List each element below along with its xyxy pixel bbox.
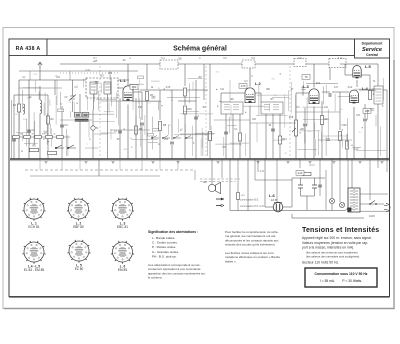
wire [320, 132, 322, 142]
svg-text:P : Petites ondes.: P : Petites ondes. [152, 245, 176, 249]
legend: signification des abreviations [148, 230, 205, 280]
wire [273, 139, 284, 141]
resistor R12 [238, 133, 241, 141]
capacitor C10 [194, 117, 198, 119]
ground [44, 162, 47, 164]
svg-text:EZ 80: EZ 80 [75, 267, 84, 271]
svg-text:185: 185 [365, 109, 370, 113]
wire [67, 135, 69, 156]
wire [377, 64, 379, 86]
wire [386, 90, 388, 159]
svg-text:CV: CV [64, 97, 68, 99]
junction node [161, 105, 162, 106]
wire [107, 94, 109, 120]
wire [339, 141, 341, 160]
wire [304, 124, 306, 143]
wire [141, 126, 143, 159]
svg-text:EBF 80: EBF 80 [73, 225, 84, 229]
electrolytic capacitor C21 [312, 178, 317, 196]
resistor [138, 76, 144, 79]
wire [210, 126, 212, 141]
capacitor C22 [318, 185, 322, 187]
mains plug P1 [384, 204, 390, 212]
wire [356, 80, 358, 87]
wire [138, 98, 140, 118]
tube socket diagram L. 6 (underside view) [111, 241, 134, 264]
wire drop to dial line [98, 159, 100, 176]
wire [362, 74, 371, 76]
wire [100, 83, 102, 94]
tube socket diagram L. 2 (underside view) [67, 198, 90, 221]
wire [109, 76, 111, 94]
wire plate to OPT [359, 89, 374, 91]
junction node [220, 101, 221, 102]
paper sheet [3, 28, 394, 309]
svg-text:Consommation sous 110 V 50 H: Consommation sous 110 V 50 Hz [315, 272, 368, 276]
wire [327, 109, 329, 140]
antenna A1 [38, 62, 42, 68]
wire [239, 114, 241, 159]
resistor R11 [208, 132, 211, 141]
wire [302, 106, 323, 108]
wire [322, 91, 330, 93]
wire mains rail [360, 193, 388, 195]
wire [94, 133, 108, 135]
wire [325, 137, 327, 156]
wire [39, 114, 41, 159]
wire [140, 117, 142, 146]
mains transformer T [347, 188, 360, 212]
svg-text:ECH 81: ECH 81 [28, 225, 39, 229]
wire [303, 81, 305, 95]
wire [135, 98, 137, 159]
wire [146, 64, 148, 90]
wire [183, 110, 199, 112]
wire [377, 104, 379, 159]
resistor chain element [57, 135, 64, 138]
junction node [180, 130, 181, 131]
tube L.2 envelope [245, 88, 255, 103]
wire cathode L3 [313, 107, 315, 160]
wire [146, 101, 148, 160]
wire [47, 95, 49, 116]
capacitor [44, 131, 48, 133]
wire [44, 93, 46, 116]
wire [342, 137, 344, 147]
wire [255, 92, 261, 94]
capacitor C9 [170, 142, 174, 144]
voltage value box 185 [363, 109, 371, 114]
wire [72, 101, 74, 113]
tube socket diagram L.4 - L.5 (underside view) [22, 241, 45, 264]
wire [85, 147, 99, 149]
wire [119, 98, 121, 159]
wire [116, 93, 118, 118]
wire [18, 80, 20, 159]
wire [306, 196, 308, 210]
chassis bus lower edge [10, 160, 389, 162]
wire AVC line [195, 80, 197, 159]
resistor R4 [48, 151, 57, 154]
wire [257, 94, 288, 96]
wire [29, 71, 31, 80]
wire [244, 105, 265, 107]
svg-text:endroits des circuits qu'il: endroits des circuits qu'ils intéressent… [225, 243, 276, 247]
svg-text:Schéma général: Schéma général [173, 46, 227, 53]
dashed switch row [200, 178, 240, 180]
resistor R10 [183, 106, 186, 114]
IF1 secondary coil [104, 82, 111, 94]
chassis ground bus [10, 158, 389, 160]
resistor chain element [35, 135, 42, 138]
wire [347, 159, 349, 211]
wire [79, 94, 81, 112]
tube L.3 envelope [309, 89, 319, 104]
wire [356, 150, 386, 152]
capacitor [302, 88, 306, 90]
wire [244, 134, 246, 156]
wire [21, 133, 23, 141]
wire antenna lead [39, 68, 41, 80]
svg-text:Appareil réglé sur 200 m. envi: Appareil réglé sur 200 m. environ, sans … [302, 236, 372, 240]
tube socket diagram L. 3 (underside view) [111, 198, 134, 221]
ground [176, 162, 179, 164]
wire [184, 64, 186, 86]
junction node [245, 112, 246, 113]
svg-text:L.2: L.2 [255, 81, 262, 86]
coil S2 [40, 100, 42, 114]
wire [214, 119, 250, 121]
svg-text:110V: 110V [369, 214, 375, 218]
section: Tensions et Intensites [302, 227, 379, 265]
wire [88, 120, 90, 138]
wire [319, 159, 321, 196]
wire top rail left [19, 79, 129, 81]
IF transformer S7 can (right of L2) [261, 102, 283, 114]
ground [332, 162, 335, 164]
dashed switch row [200, 181, 236, 183]
wire [309, 98, 318, 100]
ground [256, 162, 259, 164]
wire [66, 129, 68, 156]
wire [132, 86, 134, 110]
resistor [58, 109, 64, 112]
wire [288, 91, 290, 112]
svg-text:G: G [21, 151, 23, 153]
wire [96, 99, 116, 101]
wire [49, 124, 51, 134]
wire [56, 80, 58, 105]
wire [229, 117, 231, 133]
wire [301, 195, 315, 197]
dial lamp E1 [329, 198, 334, 203]
wire [352, 146, 361, 148]
svg-text:Valeurs moyennes (tension en v: Valeurs moyennes (tension en volts par r… [302, 241, 368, 245]
wire [295, 95, 297, 119]
IF transformer S3 (dashed can) [86, 78, 118, 98]
svg-text:commutation P.O.-G.O.: commutation P.O.-G.O. [240, 205, 265, 208]
wire [382, 78, 384, 101]
svg-text:0,02: 0,02 [348, 87, 353, 89]
wire [386, 159, 388, 172]
wire [33, 112, 35, 145]
dial lamp E2 [339, 202, 344, 207]
wire [265, 206, 273, 208]
wire [264, 159, 266, 207]
wire [292, 217, 364, 219]
svg-text:Central: Central [366, 53, 378, 57]
junction node [342, 129, 343, 130]
wire [201, 128, 203, 148]
wire [167, 125, 169, 135]
wire [295, 136, 297, 159]
wire [18, 112, 20, 130]
junction node [341, 134, 342, 135]
wire [221, 92, 243, 94]
wire plate L3 [313, 64, 315, 88]
loudspeaker HP [208, 182, 220, 193]
wire [184, 96, 186, 105]
dial cord dashed line [25, 169, 195, 171]
output transformer S10 [374, 86, 383, 104]
wire [301, 86, 303, 96]
wire [375, 115, 377, 127]
capacitor C3 [60, 125, 64, 127]
wire [184, 124, 186, 132]
wire [51, 128, 53, 146]
wire section divider dashed [205, 66, 207, 156]
wire [141, 92, 143, 120]
capacitor C7 [118, 131, 122, 133]
wire [347, 118, 349, 147]
voltage value box 170 [239, 84, 247, 89]
legend arrow solid [216, 198, 224, 201]
wire [304, 108, 306, 123]
capacitor C1 [27, 130, 31, 132]
wire drop to dial line [39, 159, 41, 170]
wire [303, 118, 327, 120]
wire [28, 80, 30, 125]
ground [84, 162, 87, 164]
junction node [299, 132, 300, 133]
volume potentiometer R15 [292, 120, 298, 136]
wire [69, 111, 71, 118]
junction node [382, 105, 383, 106]
resistor chain element [13, 135, 20, 138]
ground [216, 162, 219, 164]
ground [380, 162, 383, 164]
wire [159, 131, 161, 160]
wire [291, 214, 293, 218]
wire [110, 129, 150, 131]
resistor [147, 133, 153, 136]
legend right column [225, 230, 280, 263]
wire [345, 74, 353, 76]
wire [19, 87, 62, 89]
wire [107, 120, 109, 159]
wire [151, 80, 160, 82]
wire [167, 97, 200, 99]
drawing frame [9, 39, 390, 297]
wire to speaker [211, 159, 213, 184]
wire [61, 106, 63, 159]
wire [344, 64, 346, 75]
wire [34, 80, 36, 92]
wire [321, 101, 323, 116]
wire [188, 83, 190, 103]
svg-text:L.1: L.1 [120, 78, 127, 83]
wire [250, 122, 296, 124]
wire drop to dial line [119, 159, 121, 170]
wire [47, 124, 49, 159]
wire [290, 82, 292, 113]
wire [69, 71, 71, 80]
junction node [60, 103, 61, 104]
wire [171, 145, 173, 159]
capacitor C2 [12, 139, 16, 141]
junction node [48, 141, 49, 142]
wire [272, 96, 289, 98]
wire [194, 170, 196, 180]
svg-text:S 11: S 11 [260, 171, 265, 173]
wire [131, 139, 157, 141]
wire [23, 87, 40, 89]
wire [379, 127, 381, 157]
trimmer T1 [91, 126, 95, 130]
title block: Departement Service Central [355, 39, 390, 58]
capacitor C13 [271, 129, 275, 131]
wire [174, 134, 208, 136]
wire [254, 159, 256, 180]
wire [72, 90, 74, 96]
svg-text:R10: R10 [187, 108, 192, 111]
wire [299, 130, 320, 132]
wire [195, 132, 215, 134]
wire [133, 91, 142, 93]
wire [14, 94, 48, 96]
wire [46, 113, 48, 145]
voltage value box 100 [130, 85, 138, 90]
wire [279, 114, 281, 159]
svg-text:210: 210 [298, 171, 303, 175]
wire [304, 133, 306, 143]
wire [203, 64, 205, 100]
wire section divider dashed [289, 66, 291, 156]
wire [383, 89, 387, 91]
tuning gang dashed link [60, 72, 120, 74]
wire [43, 103, 45, 116]
consommation box [305, 268, 377, 287]
capacitor [151, 96, 155, 98]
voltage value box 210 [296, 171, 304, 176]
IF1 primary coil [90, 82, 97, 94]
junction node [77, 103, 78, 104]
wire [100, 100, 160, 102]
switch block S9 (dashed) [329, 59, 346, 68]
wire [334, 94, 336, 112]
wire [13, 95, 15, 159]
svg-text:0,5M: 0,5M [341, 125, 346, 127]
wire [92, 110, 94, 126]
voltage value box 75 [302, 75, 310, 80]
svg-text:C11: C11 [220, 89, 225, 91]
svg-text:100: 100 [132, 85, 137, 89]
wire [331, 204, 333, 211]
wire [83, 79, 85, 88]
wire [257, 159, 259, 172]
wire [339, 92, 341, 130]
paper bottom shadow [4, 60, 394, 309]
junction node [216, 89, 217, 90]
svg-text:0,05: 0,05 [166, 87, 171, 89]
wire [22, 90, 24, 110]
wire [55, 96, 57, 125]
svg-text:étalée ».: étalée ». [225, 259, 237, 263]
svg-text:1M: 1M [202, 107, 205, 109]
wire [338, 96, 353, 98]
wire [291, 178, 293, 207]
wire [299, 159, 301, 168]
wire [87, 96, 89, 111]
wire [237, 199, 239, 211]
switch block S4 (dashed) [294, 59, 306, 67]
wire [322, 86, 324, 104]
svg-text:L : Bande étalée.: L : Bande étalée. [152, 236, 175, 240]
capacitor C12 [224, 132, 228, 134]
wire [202, 132, 204, 156]
wire [323, 135, 347, 137]
wire [39, 86, 41, 100]
svg-text:S 10: S 10 [338, 58, 343, 60]
wire [340, 63, 378, 65]
wire [268, 103, 270, 111]
wire [110, 79, 112, 107]
capacitor C8 [140, 123, 144, 125]
svg-text:G : Grandes ondes.: G : Grandes ondes. [152, 250, 179, 254]
wire [11, 100, 13, 159]
wire [346, 134, 348, 141]
wire [364, 104, 366, 118]
resistor R20 [303, 172, 311, 175]
ground [111, 162, 114, 164]
wire [129, 83, 144, 85]
wire [256, 114, 288, 116]
wire [360, 203, 384, 205]
wire [94, 91, 96, 103]
wire [295, 93, 297, 120]
wire cathode L2 [249, 106, 251, 160]
wire [138, 79, 140, 85]
switch S1 contacts [55, 145, 76, 149]
wire [221, 159, 223, 178]
wire [377, 159, 379, 168]
heater wire [230, 210, 345, 212]
wire [325, 170, 327, 210]
wire [49, 99, 51, 106]
resistor R8 [158, 122, 161, 131]
IF transformer S6 can (left of L2) [221, 102, 243, 114]
capacitor C18 [363, 119, 367, 121]
wire [138, 89, 140, 104]
wire [192, 126, 194, 156]
resistor R3 [30, 148, 39, 151]
resistor R9 [183, 88, 186, 96]
wire [93, 120, 115, 122]
wire [345, 208, 348, 211]
wire [225, 114, 227, 159]
resistor R1 [17, 104, 20, 112]
wire [313, 122, 315, 138]
